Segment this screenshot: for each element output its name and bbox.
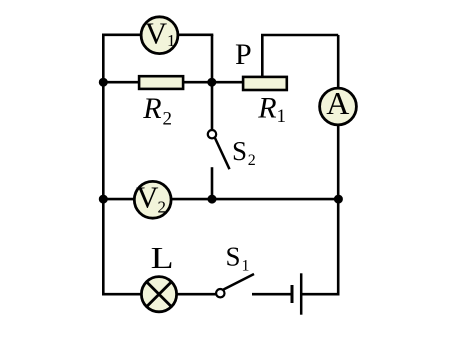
svg-text:1: 1 [277, 106, 287, 127]
svg-text:A: A [326, 85, 349, 121]
svg-text:2: 2 [248, 152, 256, 169]
svg-text:S: S [226, 241, 241, 271]
svg-text:R: R [257, 91, 276, 124]
svg-text:1: 1 [167, 31, 176, 50]
svg-text:S: S [232, 136, 247, 166]
svg-text:V: V [145, 15, 168, 50]
svg-text:R: R [142, 92, 161, 125]
svg-text:V: V [136, 180, 159, 215]
svg-text:2: 2 [158, 197, 167, 216]
svg-text:2: 2 [163, 108, 173, 129]
svg-text:L: L [151, 240, 174, 275]
svg-text:1: 1 [242, 257, 250, 274]
svg-text:P: P [235, 38, 252, 71]
